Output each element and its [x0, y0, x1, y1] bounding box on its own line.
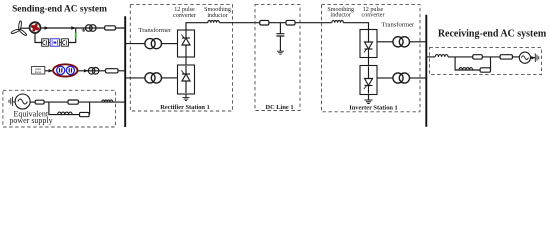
wire T3 to valve — [162, 43, 178, 45]
wire top branch to node B — [78, 101, 101, 103]
wire grid-side converter to junction — [69, 38, 76, 43]
inductor L5 — [435, 55, 448, 57]
svg-text:Sending-end AC system: Sending-end AC system — [12, 5, 107, 15]
converter grid-side — [61, 39, 68, 46]
wire bus to T3 — [126, 43, 145, 45]
wire green to row1 junction — [75, 28, 77, 32]
receiving system box — [430, 48, 542, 75]
green wire segment — [75, 32, 77, 38]
svg-text:Receiving-end AC system: Receiving-end AC system — [438, 29, 547, 40]
DC wire to line — [219, 22, 259, 24]
wire between valves — [185, 57, 187, 65]
arrow before ground — [531, 56, 535, 59]
valve bridge upper U3 — [360, 30, 377, 58]
svg-text:converter: converter — [173, 13, 196, 19]
rectifier station box — [130, 4, 232, 111]
svg-text:power supply: power supply — [9, 116, 52, 125]
arrow on stator wire — [45, 26, 49, 29]
shunt capacitor C1 — [279, 23, 281, 34]
transformer T6 — [393, 73, 410, 83]
svg-text:Inverter Station 1: Inverter Station 1 — [349, 104, 398, 111]
transformer T2 — [88, 68, 99, 75]
svg-text:Transformer: Transformer — [382, 21, 416, 28]
transformer T3 — [145, 39, 162, 49]
ground right (rotated) — [535, 53, 538, 62]
wire valve U4 to T6 — [377, 77, 393, 79]
wire between valves — [368, 58, 370, 66]
wire — [60, 42, 62, 44]
svg-text:Transformer: Transformer — [138, 27, 172, 34]
DC riser from upper valve — [186, 23, 208, 30]
wire row2 to transformer — [78, 70, 125, 72]
resistor R5 bottom branch — [80, 112, 90, 116]
svg-text:inductor: inductor — [331, 13, 351, 19]
inductor L2 output — [102, 100, 113, 102]
resistor R8 top branch — [473, 55, 483, 59]
svg-text:mover: mover — [35, 71, 42, 74]
inductor L1 bottom branch — [58, 112, 73, 115]
wire row1: generator to bus — [40, 27, 124, 29]
svg-text:inductor: inductor — [207, 13, 227, 19]
arrow diamond row2 — [84, 69, 88, 72]
svg-text:DC Line 1: DC Line 1 — [265, 104, 293, 111]
resistor R3 — [35, 100, 44, 104]
AC source V1 — [15, 94, 30, 109]
ground left of source — [9, 97, 13, 106]
smoothing inductor L3 — [208, 21, 220, 23]
wire to node A — [44, 101, 68, 103]
line resistor R7 — [286, 20, 295, 25]
smoothing inductor L4 — [332, 21, 344, 23]
wire T5 to bus — [410, 41, 426, 43]
wire turbine to generator — [21, 27, 30, 29]
ground below C1 — [277, 51, 284, 54]
equivalent power supply box — [3, 90, 116, 127]
svg-text:Rectifier Station 1: Rectifier Station 1 — [160, 104, 210, 111]
prime mover block — [32, 67, 45, 75]
wire bus into box — [427, 56, 435, 58]
line resistor R6 — [260, 20, 269, 25]
valve bridge upper U1 — [178, 30, 195, 57]
arrow before junction — [71, 26, 75, 29]
svg-text:converter: converter — [361, 13, 384, 19]
resistor R2 row2 — [106, 69, 119, 73]
generator G1 (DFIG) — [30, 22, 41, 33]
transformer T4 — [145, 73, 162, 83]
ground below lower valve — [185, 94, 187, 97]
valve bridge lower U4 — [360, 66, 377, 95]
generator G2 (maroon ellipse machine) — [53, 64, 77, 76]
AC source V2 — [519, 52, 530, 63]
bottom branch down — [455, 57, 459, 70]
ground at transformer T1 — [83, 28, 85, 30]
wire T6 to bus — [410, 77, 426, 79]
transformer T5 — [393, 37, 410, 47]
valve bridge lower U2 — [178, 65, 195, 94]
resistor R9 bottom branch — [480, 68, 490, 72]
resistor R1 row1 — [105, 26, 116, 30]
DC wire to valve — [343, 23, 368, 30]
wire — [48, 42, 50, 44]
wire to node D — [482, 56, 500, 58]
rotor stub from generator — [35, 33, 42, 43]
resistor R4 top branch — [68, 100, 78, 104]
DC link capacitor (blue box) — [50, 39, 60, 46]
riser to node B — [89, 102, 91, 115]
wire source to R3 — [30, 101, 35, 103]
wire R6 to R7 — [269, 22, 286, 24]
transformer T1 — [86, 25, 97, 32]
arrow row2 — [49, 69, 53, 72]
resistor R10 series — [500, 55, 512, 59]
wire to node C — [448, 56, 473, 58]
wire valve U3 to T5 — [377, 41, 393, 43]
ground below lower valve — [368, 95, 370, 100]
receiving bus — [425, 15, 427, 127]
wire R7 onward — [295, 22, 332, 24]
inverter station box — [322, 4, 421, 111]
wire source to ground — [531, 57, 536, 59]
wire to bus — [102, 101, 125, 103]
wind turbine — [11, 21, 28, 36]
wire bus to T4 — [126, 77, 145, 79]
wire to source — [512, 56, 519, 58]
wire T4 to valve — [162, 77, 178, 79]
converter rotor-side — [42, 39, 49, 46]
riser bottom to top — [490, 57, 492, 70]
inductor L6 bottom branch — [459, 68, 473, 70]
sending bus — [124, 16, 126, 127]
bottom branch: down from node A — [49, 102, 58, 115]
wire row2 — [45, 70, 53, 72]
DC line box — [255, 5, 300, 111]
